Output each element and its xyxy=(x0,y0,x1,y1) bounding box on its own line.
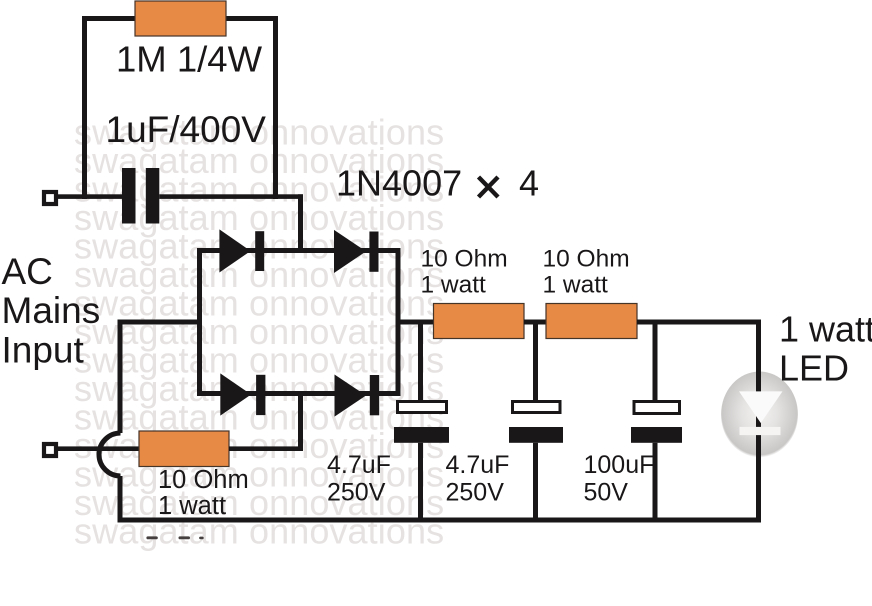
bridge top rail xyxy=(197,248,401,253)
wire terminal to R2 xyxy=(56,446,139,451)
watermark text rows xyxy=(74,112,444,552)
resistor R2 10 Ohm 1 watt xyxy=(139,431,229,467)
bridge right edge xyxy=(396,248,401,396)
diode D2 top-right xyxy=(334,230,379,273)
wire hop arc over AC lead xyxy=(99,433,121,476)
LED triangle xyxy=(739,391,783,423)
capacitor C4 bottom plate xyxy=(631,427,682,443)
wire R3 to R4 xyxy=(524,320,546,325)
svg-text:1 watt: 1 watt xyxy=(543,272,609,299)
svg-text:1uF/400V: 1uF/400V xyxy=(106,109,267,150)
svg-text:1M 1/4W: 1M 1/4W xyxy=(116,39,263,80)
wire vertical into bridge top node xyxy=(298,194,303,253)
wire top-loop left vertical xyxy=(82,16,87,199)
wire C3 to rail xyxy=(533,443,538,519)
terminal AC input top xyxy=(44,192,56,204)
capacitor C2 bottom plate xyxy=(394,427,449,443)
wire bridge left tap xyxy=(118,320,198,325)
svg-text:AC: AC xyxy=(2,251,53,292)
capacitor C3 top plate xyxy=(513,402,561,413)
stray ink marks below rail xyxy=(146,536,157,539)
LED cathode bar xyxy=(740,427,781,435)
svg-text:1N4007: 1N4007 xyxy=(336,163,462,204)
svg-text:1 watt: 1 watt xyxy=(158,492,226,520)
svg-text:10 Ohm: 10 Ohm xyxy=(158,466,249,494)
bottom rail xyxy=(118,518,761,523)
capacitor C2 top plate xyxy=(398,402,447,413)
svg-text:LED: LED xyxy=(779,348,849,389)
svg-text:4.7uF: 4.7uF xyxy=(446,451,510,479)
diode D1 top-left xyxy=(219,229,264,272)
svg-text:10 Ohm: 10 Ohm xyxy=(543,246,630,273)
wire terminal to C1 xyxy=(56,194,122,199)
capacitor C4 stub xyxy=(653,324,658,402)
wire bridge right tap xyxy=(400,320,434,325)
svg-text:swagatam onnovations: swagatam onnovations xyxy=(74,511,444,552)
capacitor C4 top plate xyxy=(634,402,680,414)
svg-text:250V: 250V xyxy=(327,478,386,506)
bridge left edge xyxy=(197,248,202,396)
wire top-loop horizontal xyxy=(82,16,278,21)
resistor R4 10 Ohm 1 watt xyxy=(546,304,637,339)
diode D4 bottom-right xyxy=(335,375,380,417)
svg-text:Mains: Mains xyxy=(2,290,101,331)
svg-text:10 Ohm: 10 Ohm xyxy=(421,246,508,273)
terminal AC input bottom xyxy=(44,444,56,456)
wire R4 to LED corner xyxy=(637,320,761,325)
wire top-loop right vertical xyxy=(273,16,278,199)
wire C1 to bridge top corner xyxy=(159,194,303,199)
svg-text:100uF: 100uF xyxy=(584,451,655,479)
wire C2 to rail xyxy=(418,443,423,519)
svg-text:50V: 50V xyxy=(584,478,629,506)
svg-text:4.7uF: 4.7uF xyxy=(327,451,391,479)
wire negative vertical lower xyxy=(118,476,123,523)
capacitor C3 bottom plate xyxy=(509,427,563,443)
wire LED vertical xyxy=(756,320,761,523)
svg-text:4: 4 xyxy=(519,163,539,204)
capacitor C1 1uF/400V right plate xyxy=(146,168,160,224)
LED body circle xyxy=(721,372,798,458)
wire negative vertical upper xyxy=(118,322,123,433)
wire R2 to bridge bottom node xyxy=(229,446,303,451)
diode D3 bottom-left xyxy=(220,373,265,415)
multiply sign xyxy=(479,177,499,197)
resistor R3 10 Ohm 1 watt xyxy=(434,304,525,339)
svg-text:1 watt: 1 watt xyxy=(779,309,872,350)
bridge bottom rail xyxy=(197,391,401,396)
wire C4 to rail xyxy=(653,443,658,519)
capacitor C2 stub xyxy=(418,324,423,402)
svg-text:250V: 250V xyxy=(446,478,505,506)
svg-text:Input: Input xyxy=(2,330,85,371)
wire vertical from bridge bottom node xyxy=(298,396,303,449)
resistor R1 1M 1/4W xyxy=(135,1,226,36)
svg-text:1 watt: 1 watt xyxy=(421,272,487,299)
capacitor C3 stub xyxy=(533,324,538,402)
capacitor C1 1uF/400V left plate xyxy=(122,168,136,224)
